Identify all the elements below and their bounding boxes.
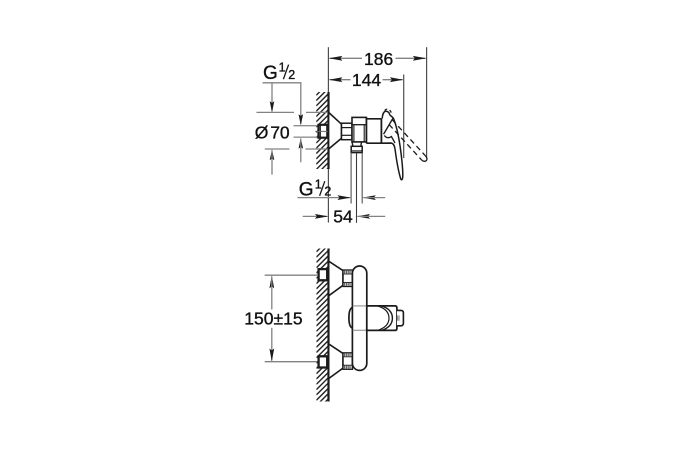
G 1/2 leader stem + down arrow to pipe stub	[300, 83, 302, 124]
dimension 186 line	[330, 57, 363, 59]
extension line right of 186	[426, 47, 428, 157]
bottom union escutcheon cone (plan)	[329, 344, 343, 379]
dimension 150+-15 extension line bottom	[265, 361, 317, 363]
svg-text:Ø: Ø	[255, 123, 269, 143]
wall fitting inner line	[319, 124, 321, 139]
handle grip outline (plan)	[367, 306, 397, 331]
dimension 54 arrow left (tip at pipe centerline)	[357, 214, 371, 219]
svg-text:G: G	[263, 63, 278, 84]
grip dome arc outer	[382, 306, 393, 331]
union hex nut (side view)	[342, 123, 353, 140]
handle grip tip (plan)	[397, 310, 404, 325]
outlet nut lower line	[351, 150, 362, 152]
top union hex nut facet lines + knurl	[343, 273, 352, 275]
flange cap line	[352, 124, 366, 126]
lever cap diagonal edge	[384, 118, 394, 134]
lever blade dashed line lower	[389, 124, 422, 159]
grip tip shading	[398, 315, 399, 320]
dashed lever tip hook	[422, 156, 427, 162]
svg-text:144: 144	[352, 70, 381, 90]
bottom union hex nut facet lines + knurl	[343, 356, 352, 358]
bottom union hex nut (plan)	[343, 353, 352, 369]
dimension 144 arrows	[329, 77, 343, 82]
top union square nut (plan)	[319, 269, 328, 280]
svg-text:54: 54	[333, 207, 353, 227]
bottom union square nut (plan)	[319, 356, 328, 367]
dimension 150+-15 vertical line + arrows	[269, 275, 274, 288]
dimension 54 arrow right (tip at wall ext line)	[315, 214, 329, 219]
svg-text:186: 186	[364, 49, 393, 69]
extension line right of 144	[403, 75, 405, 159]
body bottom edge	[366, 143, 395, 149]
lever ridge	[390, 115, 393, 118]
G 1/2 lower arrow left (tip at pipe right wall)	[362, 195, 376, 200]
dimension 150+-15 extension line top	[265, 274, 317, 276]
hex nut facet lines	[342, 127, 353, 129]
dia 70 stem + arrows	[271, 84, 273, 112]
G 1/2 lower arrow right (tip at pipe left wall)	[338, 195, 352, 200]
connection flange block	[352, 117, 366, 141]
lever dome (dashed alternate position)	[383, 109, 392, 116]
wall hatching (side view)	[316, 78, 328, 181]
dimension 144 line	[330, 79, 351, 81]
svg-text:150±15: 150±15	[244, 308, 302, 328]
svg-text:2: 2	[324, 185, 331, 199]
supply pipe stub (G1/2 thread)	[294, 125, 318, 127]
valve body (side view)	[366, 119, 381, 143]
centerline through wall fitting	[315, 130, 328, 132]
lever blade dashed line upper	[392, 120, 425, 156]
grip dome arc inner	[378, 306, 389, 331]
dimension 186 arrows	[329, 56, 343, 61]
capsule left bulge at handle row	[349, 307, 352, 328]
shower outlet neck	[352, 142, 361, 146]
svg-text:2: 2	[288, 68, 295, 82]
wall face line (plan view)	[327, 249, 329, 402]
top union escutcheon cone (plan)	[329, 261, 343, 296]
G 1/2 (upper) underline leader	[263, 82, 302, 84]
escutcheon cone (side view)	[329, 112, 342, 149]
top union hex nut (plan)	[343, 270, 352, 286]
dimension 54 tail left	[303, 215, 328, 217]
flange inner vertical lines	[353, 125, 355, 142]
lever blade (solid, pointing down)	[393, 118, 403, 180]
mixer body capsule (plan)	[352, 266, 366, 370]
lever cap lower curve	[384, 135, 395, 143]
body/handle joint line	[380, 119, 382, 144]
G 1/2 (lower) underline leader	[298, 197, 350, 199]
wall fitting square nut (side view)	[319, 125, 328, 138]
outlet pipe walls	[350, 153, 352, 204]
shower outlet nut	[351, 146, 362, 152]
outlet pipe centerline	[356, 153, 358, 223]
dimension 54 tail right	[358, 215, 386, 217]
svg-text:70: 70	[270, 123, 290, 143]
lever dome (solid)	[382, 111, 390, 118]
svg-text:1: 1	[279, 61, 286, 75]
G 1/2 opposing up arrow below pipe stub	[299, 138, 304, 149]
svg-text:1: 1	[315, 177, 322, 191]
wall face line (side view)	[327, 92, 329, 169]
dia 70 top line	[257, 111, 295, 113]
dia 70 bottom line	[265, 148, 290, 150]
handle grip hidden edges across body (gray)	[353, 305, 367, 307]
extension line above wall / below wall (x=328.4)	[327, 47, 329, 92]
wall hatching (plan view)	[316, 234, 328, 410]
